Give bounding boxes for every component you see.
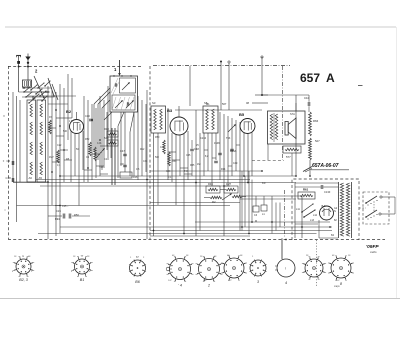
detector component cluster <box>196 110 240 236</box>
svg-text:B,6: B,6 <box>322 204 326 208</box>
tube B3 pin wires <box>172 131 188 234</box>
horizontal link wires upper-left <box>19 92 76 118</box>
svg-text:1M7: 1M7 <box>226 182 232 186</box>
svg-text:C56A: C56A <box>230 150 237 153</box>
svg-text:' 4: ' 4 <box>178 284 182 288</box>
wire left column c <box>19 100 21 182</box>
bus wire y176 <box>60 175 296 177</box>
tube socket diagram aux <box>221 256 247 280</box>
power transformer windings <box>331 182 352 238</box>
tuning capacitor gang assembly <box>110 75 138 112</box>
chassis dashed box left edge <box>8 66 10 239</box>
svg-text:R53: R53 <box>172 160 177 163</box>
tube socket diagram 4 <box>275 259 295 285</box>
svg-text:C15: C15 <box>56 209 61 213</box>
capacitor C18 <box>6 176 14 182</box>
svg-text:C22: C22 <box>57 144 62 147</box>
grid cap wire B2 <box>76 112 78 120</box>
wire bottom left link2 <box>17 205 61 207</box>
bus wire y179 <box>36 179 250 181</box>
resistor R51 under B3 <box>168 152 171 166</box>
svg-text:1548: 1548 <box>214 142 220 145</box>
svg-text:8: 8 <box>340 282 342 286</box>
svg-text:527: 527 <box>315 139 320 143</box>
pickup terminal wire <box>255 56 268 96</box>
svg-text:C15→: C15→ <box>62 205 69 208</box>
component cluster column x107-135 <box>96 127 132 185</box>
divider dash-dot x285 lower <box>284 190 286 238</box>
tube B2 pin wires <box>71 131 83 206</box>
selector feed wires <box>359 197 395 214</box>
loudspeaker <box>285 112 296 139</box>
section divider dashed line x150 <box>149 66 151 239</box>
svg-text:3: 3 <box>257 280 259 284</box>
bus wire y205 <box>55 205 230 207</box>
bus wire y222 <box>195 221 330 223</box>
svg-text:T44: T44 <box>184 170 189 173</box>
svg-text:R50: R50 <box>74 213 79 217</box>
svg-text:540: 540 <box>104 136 109 140</box>
svg-text:B1: B1 <box>80 278 84 282</box>
svg-text:R14: R14 <box>221 168 226 171</box>
svg-text:R52: R52 <box>85 138 90 141</box>
page scan edge top <box>5 26 396 28</box>
tube socket diagram ' 4 <box>167 256 194 287</box>
tube B3 envelope <box>170 117 188 135</box>
antenna terminal A2 <box>25 54 30 89</box>
svg-text:4M7: 4M7 <box>49 156 54 159</box>
grid cap wire B3 <box>178 106 180 117</box>
tube socket diagram aux <box>302 257 326 279</box>
wire risers lower middle <box>242 171 280 234</box>
svg-text:B2, 3: B2, 3 <box>19 278 27 282</box>
socket 4 side lug <box>166 267 172 271</box>
power supply dashed box <box>292 179 359 240</box>
svg-text:C45: C45 <box>186 154 191 157</box>
svg-text:C41: C41 <box>160 146 165 149</box>
svg-text:R2: R2 <box>212 200 216 204</box>
output section dashed line y160 <box>252 160 284 162</box>
tube socket diagram B2, 3 <box>13 255 34 282</box>
bus wire y171 <box>150 170 262 172</box>
svg-text:maps: maps <box>334 286 340 288</box>
svg-text:maths: maths <box>370 251 377 254</box>
junction dots left-middle <box>47 91 101 206</box>
svg-text:657: 657 <box>300 71 320 85</box>
svg-text:A6: A6 <box>29 176 33 180</box>
antenna terminal A1 <box>16 56 21 93</box>
bus wire y230 <box>150 230 332 232</box>
socket pin number specks <box>168 255 351 282</box>
svg-text:C40: C40 <box>85 114 90 118</box>
svg-text:m: m <box>22 255 24 258</box>
svg-text:A: A <box>326 71 335 85</box>
svg-text:L11: L11 <box>296 208 300 211</box>
tube B5 pin wires <box>244 132 252 183</box>
capacitor pair C16 C17 <box>48 205 90 221</box>
svg-text:4: 4 <box>285 281 287 285</box>
resistor R61 box <box>298 188 315 200</box>
socket 1-3 pin specks <box>12 256 145 273</box>
wire bottom left link <box>13 181 48 183</box>
svg-text:R46: R46 <box>208 182 213 186</box>
svg-text:L13: L13 <box>310 219 315 222</box>
svg-text:C13F: C13F <box>324 190 331 194</box>
capacitor C48 <box>190 140 199 176</box>
svg-text:B6: B6 <box>135 280 139 284</box>
tiny value labels scatter mid section <box>155 136 199 179</box>
mains switch arms <box>296 203 318 222</box>
dial pointer 1 arrow <box>114 60 121 76</box>
scan specks left edge <box>3 115 6 210</box>
svg-text:C134: C134 <box>200 137 207 140</box>
dotted line through socket 9 <box>316 240 318 287</box>
svg-text:C44: C44 <box>97 142 102 145</box>
voltage selector upper switch <box>365 196 395 206</box>
oscillator coil can A5 <box>37 100 46 182</box>
capacitor C10 top right <box>304 95 310 112</box>
svg-text:C6: C6 <box>7 159 11 163</box>
svg-text:B94: B94 <box>55 217 60 221</box>
chassis dashed box bottom edge <box>8 239 385 241</box>
wire left column b <box>16 96 18 222</box>
bus wire y202 <box>150 202 240 204</box>
wire left column a <box>12 92 14 182</box>
page scan edge bottom <box>0 298 400 300</box>
resistor R50 under B3 <box>163 140 166 154</box>
resistor R3 vertical <box>49 120 52 134</box>
svg-text:1M: 1M <box>197 163 200 166</box>
wires into power box <box>240 196 302 259</box>
svg-text:R66: R66 <box>313 119 319 123</box>
fan-out wires from gang <box>94 88 134 178</box>
svg-text:R12: R12 <box>140 148 145 151</box>
svg-text:M: M <box>255 220 257 223</box>
svg-text:S7A: S7A <box>290 112 295 116</box>
bus junction dots <box>59 170 331 240</box>
page scan edge right <box>396 27 398 298</box>
junction dots on top dashed edge <box>18 66 29 68</box>
rectifier tube B6 <box>320 204 338 222</box>
bus wire y236 <box>150 235 250 237</box>
svg-text:R40: R40 <box>104 127 109 131</box>
svg-text:M1: M1 <box>206 102 210 106</box>
resistor R50A box <box>283 146 301 159</box>
bus wire y182 <box>13 182 296 184</box>
svg-text:T43: T43 <box>226 137 231 140</box>
tube socket diagram 2 <box>196 256 223 287</box>
svg-text:S3: S3 <box>152 101 156 105</box>
mains selector dashed box <box>363 192 389 224</box>
IF transformer S3 S4 can <box>151 101 166 133</box>
svg-text:B2: B2 <box>66 109 72 114</box>
tiny value labels scatter left section <box>49 116 148 179</box>
rung connector segments left section <box>48 128 108 174</box>
section divider dash-dot line x284 <box>282 66 284 160</box>
svg-text:K3: K3 <box>262 181 266 185</box>
svg-text:R61: R61 <box>303 188 309 192</box>
power box internal wires <box>295 183 338 238</box>
svg-text:567: 567 <box>222 102 227 106</box>
label 09FP mains <box>366 244 379 254</box>
drawing number 657A-06-07 <box>303 163 349 172</box>
chassis dashed box left section top edge <box>8 66 143 68</box>
svg-text:R55: R55 <box>190 164 195 167</box>
chassis dashed box right section top edge <box>153 65 290 67</box>
svg-text:R50: R50 <box>155 136 160 139</box>
bus wire y186 <box>40 185 230 187</box>
tube socket diagram B1 <box>71 255 92 282</box>
capacitor C40 <box>85 114 93 121</box>
resistor R10 vertical <box>94 147 97 161</box>
resistor network R46 1M7 <box>204 182 246 204</box>
svg-text:'09FP: '09FP <box>366 244 379 250</box>
svg-text:C43: C43 <box>166 170 171 173</box>
tube socket diagram 8 <box>328 256 354 286</box>
stray mark dash <box>358 85 363 87</box>
selector link dashes <box>373 204 375 211</box>
svg-text:50F: 50F <box>155 156 160 159</box>
wire riser group left-middle <box>48 74 108 239</box>
resistor R9 vertical <box>89 142 92 156</box>
rung connector segments mid section <box>168 152 192 174</box>
tube B5 envelope <box>240 119 255 134</box>
resistor R4 vertical <box>57 150 60 163</box>
wires around output stage <box>252 95 309 176</box>
top terminal posts <box>175 61 262 111</box>
voltage selector lower switch <box>365 210 395 220</box>
svg-text:B5: B5 <box>239 112 245 117</box>
tube B2 envelope <box>70 120 84 134</box>
bus wire y227 <box>60 226 332 228</box>
svg-text:577: 577 <box>286 155 291 159</box>
svg-text:B3: B3 <box>167 108 173 113</box>
svg-text:S: S <box>334 209 336 213</box>
svg-text:657A-06-07: 657A-06-07 <box>312 163 339 169</box>
wire risers mid section <box>147 66 190 239</box>
output transformer and speaker box <box>268 111 306 144</box>
svg-text:C18: C18 <box>6 176 12 180</box>
IF transformer S5 S6 can <box>203 101 218 133</box>
svg-text:L12: L12 <box>313 214 318 217</box>
capacitor C13 <box>295 185 338 194</box>
wire risers right of gang <box>107 96 146 180</box>
svg-text:540: 540 <box>63 130 68 133</box>
capacitor C6 <box>7 159 14 165</box>
wire stub above socket 8 <box>281 240 283 259</box>
aerial coil can A6 <box>27 100 36 182</box>
svg-text:2: 2 <box>207 284 210 288</box>
svg-text:C48: C48 <box>194 147 199 151</box>
svg-text:C31: C31 <box>143 160 148 163</box>
svg-text:C49: C49 <box>233 162 238 165</box>
labels K3 C3 L1 boxes <box>253 181 267 223</box>
svg-text:C47: C47 <box>120 149 125 153</box>
volume control switch arm <box>222 193 232 200</box>
wire right of speaker x296 <box>295 103 297 176</box>
tube socket diagram B6 <box>129 256 146 284</box>
band switch contact cluster <box>22 69 58 104</box>
tube socket diagram 3 <box>250 260 267 285</box>
resistor R66 field winding <box>309 112 321 176</box>
svg-text:R16: R16 <box>133 176 138 179</box>
bus wire y233 <box>38 233 317 235</box>
svg-text:T42: T42 <box>99 166 104 169</box>
